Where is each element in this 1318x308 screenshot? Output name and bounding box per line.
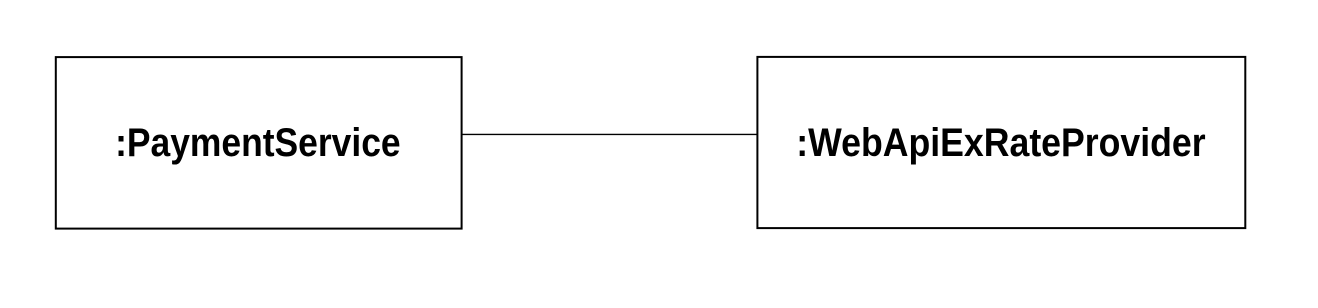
object box :PaymentService (56, 57, 462, 229)
svg-text::WebApiExRateProvider: :WebApiExRateProvider (796, 121, 1205, 165)
object box :WebApiExRateProvider (757, 57, 1245, 228)
svg-text::PaymentService: :PaymentService (115, 121, 401, 165)
link line between PaymentService and WebApiExRateProvider (462, 133, 758, 135)
